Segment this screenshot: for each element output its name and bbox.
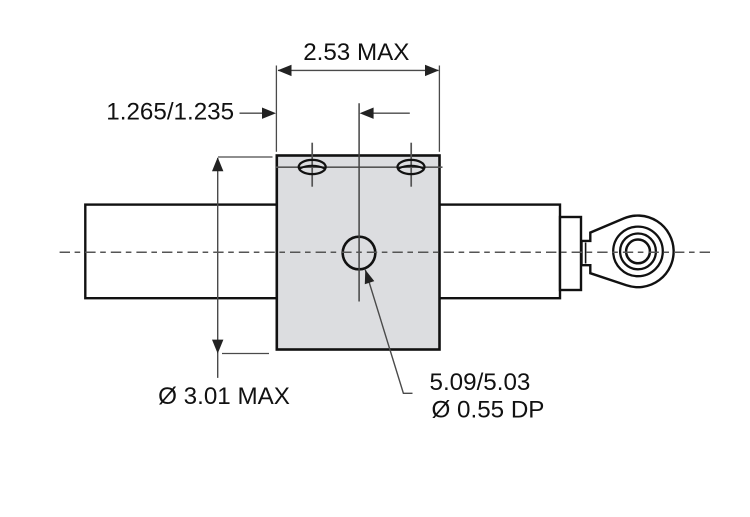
dim 2.53 right extension line <box>438 66 440 152</box>
svg-text:5.09/5.03: 5.09/5.03 <box>430 369 531 396</box>
gland step <box>560 217 581 290</box>
hole 1 centerline <box>311 143 313 187</box>
svg-text:2.53 MAX: 2.53 MAX <box>303 39 409 66</box>
hole 1 ellipse <box>299 160 326 174</box>
dim 3.01 up arrowhead <box>212 157 223 171</box>
hole 2 centerline <box>410 143 412 187</box>
svg-text:Ø 0.55 DP: Ø 0.55 DP <box>432 396 545 423</box>
hole 2 inner arc <box>399 166 424 169</box>
main horizontal centerline <box>60 251 715 253</box>
svg-text:1.265/1.235: 1.265/1.235 <box>106 99 234 126</box>
dim 1.265 right leader line <box>372 112 410 114</box>
dim 1.265 left leader line <box>240 112 264 114</box>
cylinder tube body <box>85 205 560 299</box>
eye bearing middle ring <box>620 234 656 270</box>
dim 2.53 left arrowhead <box>278 65 292 76</box>
block vertical centerline <box>358 103 360 301</box>
center pin hole <box>343 237 376 270</box>
mounting block <box>277 156 440 350</box>
holes horizontal centerline <box>276 166 443 168</box>
hole leader arrowhead <box>365 270 375 284</box>
dim 2.53 right arrowhead <box>425 65 439 76</box>
dim 3.01 bottom extension line <box>222 353 269 355</box>
hole 1 inner arc <box>300 166 325 169</box>
hole 2 ellipse <box>398 160 425 174</box>
dim 2.53 left extension line <box>275 66 277 152</box>
eye bearing bore <box>626 240 650 264</box>
stud joint line <box>585 243 587 264</box>
dim 3.01 down arrowhead <box>212 340 223 354</box>
svg-text:Ø 3.01 MAX: Ø 3.01 MAX <box>158 383 290 410</box>
rod-end eye with stud <box>582 216 674 288</box>
eye bearing outer ring <box>613 227 663 277</box>
dim 1.265 left-pointing arrowhead <box>360 108 374 119</box>
dim 3.01 line <box>217 158 219 378</box>
dim 3.01 top extension line <box>218 156 273 158</box>
hole leader line <box>365 270 412 394</box>
dim 2.53 line <box>278 69 439 71</box>
dim 1.265 right-pointing arrowhead <box>262 108 276 119</box>
